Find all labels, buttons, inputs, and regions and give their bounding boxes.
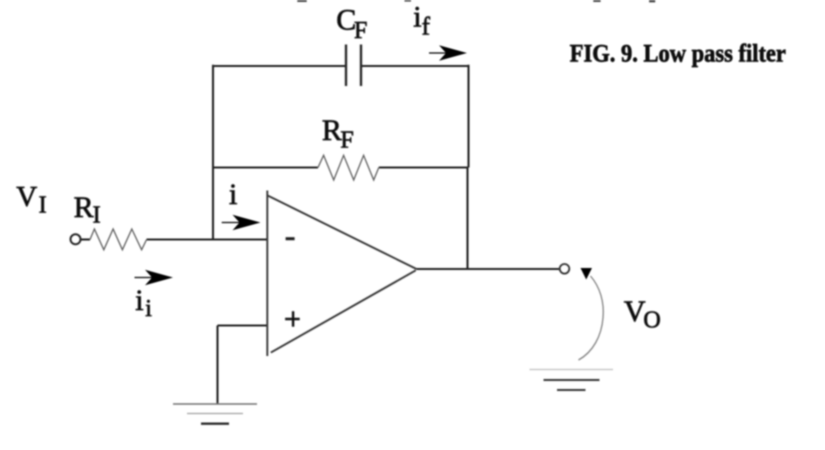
svg-text:i: i (135, 284, 143, 317)
svg-text:FIG. 9. Low pass filter: FIG. 9. Low pass filter (570, 40, 787, 67)
svg-text:I: I (39, 192, 47, 218)
svg-text:V: V (16, 181, 37, 213)
svg-text:i: i (413, 1, 421, 34)
svg-text:R: R (74, 191, 94, 224)
svg-text:R: R (322, 114, 342, 147)
svg-text:O: O (643, 308, 660, 334)
svg-text:F: F (340, 127, 353, 153)
svg-text:i: i (229, 178, 237, 211)
svg-text:i: i (145, 296, 152, 322)
svg-text:F: F (354, 18, 367, 44)
svg-text:I: I (93, 202, 101, 228)
svg-text:f: f (422, 14, 431, 41)
